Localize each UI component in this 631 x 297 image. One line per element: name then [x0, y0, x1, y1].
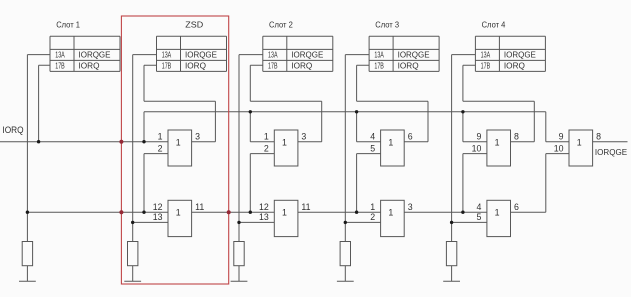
svg-text:17B: 17B: [374, 60, 384, 70]
svg-text:IORQGE: IORQGE: [595, 147, 627, 157]
svg-text:13: 13: [259, 212, 269, 222]
svg-text:1: 1: [495, 208, 500, 218]
svg-text:2: 2: [264, 143, 269, 153]
svg-text:1: 1: [282, 208, 287, 218]
svg-text:2: 2: [158, 143, 163, 153]
svg-text:IORQGE: IORQGE: [185, 49, 217, 59]
svg-text:11: 11: [301, 202, 310, 212]
svg-text:10: 10: [554, 143, 564, 153]
svg-text:1: 1: [370, 202, 375, 212]
svg-text:17B: 17B: [55, 60, 65, 70]
svg-text:Слот 2: Слот 2: [269, 20, 293, 30]
svg-text:9: 9: [559, 132, 564, 142]
svg-text:Слот 3: Слот 3: [375, 20, 399, 30]
svg-text:9: 9: [476, 132, 481, 142]
svg-text:3: 3: [301, 132, 306, 142]
svg-text:IORQ: IORQ: [185, 60, 206, 70]
svg-text:4: 4: [476, 202, 481, 212]
svg-text:10: 10: [472, 143, 482, 153]
svg-text:13A: 13A: [162, 49, 172, 59]
svg-text:13: 13: [153, 212, 163, 222]
svg-text:5: 5: [370, 143, 375, 153]
svg-text:6: 6: [408, 132, 413, 142]
svg-text:8: 8: [596, 132, 601, 142]
svg-text:Слот 1: Слот 1: [56, 20, 80, 30]
svg-text:17B: 17B: [268, 60, 278, 70]
svg-text:17B: 17B: [481, 60, 491, 70]
svg-text:2: 2: [370, 212, 375, 222]
svg-text:1: 1: [282, 137, 287, 147]
svg-text:ZSD: ZSD: [185, 20, 203, 30]
svg-text:IORQGE: IORQGE: [504, 49, 536, 59]
svg-text:5: 5: [476, 212, 481, 222]
svg-text:IORQ: IORQ: [291, 60, 312, 70]
svg-text:Слот 4: Слот 4: [482, 20, 506, 30]
svg-text:3: 3: [408, 202, 413, 212]
svg-text:1: 1: [577, 137, 582, 147]
svg-text:IORQ: IORQ: [2, 125, 23, 135]
svg-text:12: 12: [259, 202, 269, 212]
svg-text:1: 1: [176, 208, 181, 218]
svg-text:13A: 13A: [268, 49, 278, 59]
svg-text:IORQ: IORQ: [398, 60, 419, 70]
svg-text:6: 6: [514, 202, 519, 212]
svg-text:1: 1: [495, 137, 500, 147]
svg-text:4: 4: [370, 132, 375, 142]
svg-text:13A: 13A: [374, 49, 384, 59]
svg-text:IORQ: IORQ: [504, 60, 525, 70]
svg-text:12: 12: [153, 202, 163, 212]
svg-text:IORQGE: IORQGE: [79, 49, 111, 59]
svg-text:1: 1: [264, 132, 269, 142]
svg-text:11: 11: [195, 202, 204, 212]
svg-text:3: 3: [195, 132, 200, 142]
svg-text:IORQGE: IORQGE: [398, 49, 430, 59]
svg-text:IORQGE: IORQGE: [291, 49, 323, 59]
svg-text:1: 1: [176, 137, 181, 147]
svg-text:1: 1: [388, 208, 393, 218]
svg-text:IORQ: IORQ: [79, 60, 100, 70]
svg-text:17B: 17B: [162, 60, 172, 70]
svg-text:13A: 13A: [55, 49, 65, 59]
svg-text:8: 8: [514, 132, 519, 142]
svg-text:1: 1: [388, 137, 393, 147]
svg-text:1: 1: [158, 132, 163, 142]
svg-text:13A: 13A: [481, 49, 491, 59]
